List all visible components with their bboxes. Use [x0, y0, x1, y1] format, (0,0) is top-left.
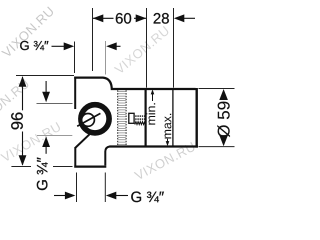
bottom port dim: left-pointing arrow: [106, 192, 117, 200]
top port dim: right extension line (grey): [105, 41, 107, 75]
top port dim: right-pointing arrow: [64, 42, 74, 50]
top port dim: left-pointing arrow: [106, 42, 117, 50]
body: foot left edge: [74, 147, 76, 166]
knob: outer ring: [81, 105, 109, 133]
threaded spigot: right boundary (dotted): [125, 90, 127, 146]
adjustment screw: head: [129, 113, 134, 123]
body: top edge with rounded corner and upper ledge: [74, 78, 195, 89]
dim diameter 59: label (rotated): [217, 102, 230, 137]
label G 3/4 bottom: [131, 192, 164, 203]
dim 60: right arrow: [136, 14, 147, 22]
threaded spigot: left boundary (dotted): [117, 90, 119, 146]
body: bottom port bottom edge: [74, 166, 106, 168]
bottom port dim: right-pointing arrow: [65, 192, 76, 200]
max arrow: [167, 139, 169, 144]
knob: plug screw circle: [82, 114, 95, 127]
top port dim: leader tail: [52, 45, 65, 47]
front port dim: down arrow: [42, 92, 50, 103]
dim 28: extension line right: [173, 8, 175, 88]
label min (rotated): [146, 103, 155, 124]
front port dim: upper extension line: [37, 103, 73, 105]
dim 28: outside tail: [183, 17, 195, 19]
dim 60: left arrow: [93, 14, 104, 22]
body: left edge upper: [74, 77, 76, 109]
dim 28: outside arrow: [174, 14, 185, 22]
dim diameter 59: top extension line: [199, 88, 235, 90]
watermark VIXON.RU #5: [0, 79, 30, 128]
dim 60: dimension line: [93, 17, 114, 19]
watermark VIXON.RU #4: [134, 142, 196, 181]
watermark VIXON.RU #1: [1, 6, 54, 58]
front port dim: up arrow: [42, 137, 50, 148]
label G 3/4 top-left: [20, 41, 48, 50]
dim 60: extension line left: [92, 8, 94, 71]
body: diagonal chamfer to knob: [76, 134, 90, 147]
body: lower ledge / block bottom edge: [109, 145, 198, 147]
dim 60/28: extension line middle: [146, 8, 148, 88]
top port dim: left extension line: [74, 42, 76, 74]
body: bottom port right edge with corner: [105, 147, 109, 166]
watermark VIXON.RU #2: [114, 26, 170, 75]
dim diameter 59: up arrow: [219, 89, 228, 100]
min arrow: [152, 93, 154, 102]
dim 96: label (rotated): [11, 113, 23, 130]
bottom port dim: right tail: [116, 195, 128, 197]
bottom port dim: right extension line: [104, 173, 106, 203]
front port dim: lower extension line (grey): [37, 135, 72, 137]
block: left edge (min plane): [145, 88, 147, 148]
threaded spigot: hatch fill: [118, 92, 126, 145]
adjustment screw: thread zigzag: [135, 122, 146, 125]
dim 96: top arrow: [19, 76, 27, 87]
front port dim: lower line: [45, 147, 47, 154]
dim diameter 59: bottom extension line: [199, 146, 235, 148]
dim 96: bottom arrow: [19, 155, 27, 166]
bottom port dim: left extension line: [76, 173, 78, 203]
label max (rotated): [165, 114, 172, 139]
block: right edge: [195, 88, 197, 148]
top port dim: right tail: [116, 45, 121, 47]
dim 96: top extension line: [16, 75, 74, 77]
dim 28: label: [154, 13, 169, 24]
knob: screw slot: [77, 113, 100, 126]
dim 96: dimension line: [22, 77, 24, 111]
watermark VIXON.RU #3: [0, 122, 61, 163]
bottom port dim: left tail: [54, 195, 66, 197]
dim 60: label: [116, 13, 131, 24]
label G 3/4 left (rotated): [37, 157, 48, 190]
block: divider (max plane): [172, 89, 174, 146]
dim diameter 59: down arrow: [219, 135, 228, 146]
adjustment screw: thread dots: [135, 115, 145, 119]
dim 96: bottom extension line: [11, 166, 31, 168]
front port dim: upper line: [45, 81, 47, 93]
